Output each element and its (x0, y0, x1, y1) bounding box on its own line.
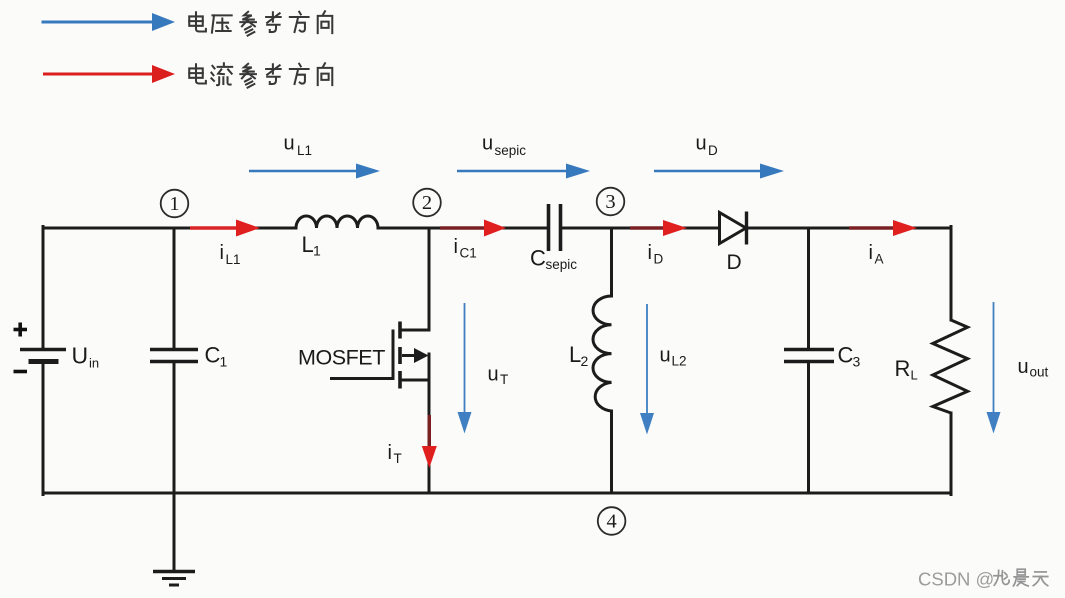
svg-text:L: L (302, 232, 314, 257)
svg-text:i: i (220, 242, 224, 264)
svg-text:u: u (488, 364, 499, 386)
svg-text:L: L (911, 368, 918, 383)
svg-text:1: 1 (313, 243, 321, 259)
svg-text:u: u (696, 133, 707, 155)
svg-text:i: i (869, 242, 873, 264)
svg-text:3: 3 (853, 354, 861, 370)
svg-text:L: L (569, 342, 581, 367)
svg-text:L1: L1 (297, 143, 312, 158)
svg-text:T: T (394, 451, 402, 466)
svg-text:u: u (1018, 356, 1029, 378)
svg-text:C: C (838, 343, 854, 368)
svg-text:CSDN @: CSDN @ (918, 569, 994, 590)
svg-text:sepic: sepic (546, 257, 578, 272)
svg-text:3: 3 (605, 191, 615, 213)
svg-text:i: i (648, 242, 652, 264)
svg-text:2: 2 (581, 353, 589, 369)
svg-text:U: U (72, 343, 89, 369)
svg-text:C: C (530, 246, 546, 271)
svg-text:A: A (875, 252, 884, 267)
svg-text:4: 4 (606, 511, 616, 533)
svg-text:1: 1 (169, 193, 179, 215)
svg-text:u: u (284, 133, 295, 155)
svg-text:in: in (89, 356, 99, 371)
svg-text:D: D (727, 251, 742, 274)
svg-text:D: D (708, 143, 718, 158)
svg-text:i: i (454, 236, 458, 258)
svg-text:1: 1 (220, 354, 228, 370)
svg-text:C1: C1 (460, 246, 477, 261)
svg-text:C: C (205, 343, 221, 368)
svg-text:R: R (895, 356, 911, 381)
svg-text:u: u (660, 345, 671, 367)
svg-text:i: i (388, 442, 392, 464)
svg-text:L2: L2 (672, 354, 687, 369)
svg-text:MOSFET: MOSFET (298, 346, 385, 370)
svg-text:sepic: sepic (495, 143, 527, 158)
svg-text:T: T (500, 372, 508, 387)
svg-text:2: 2 (422, 192, 432, 214)
svg-text:D: D (654, 252, 664, 267)
svg-text:u: u (482, 133, 493, 155)
svg-text:L1: L1 (226, 252, 241, 267)
svg-text:out: out (1030, 365, 1049, 380)
